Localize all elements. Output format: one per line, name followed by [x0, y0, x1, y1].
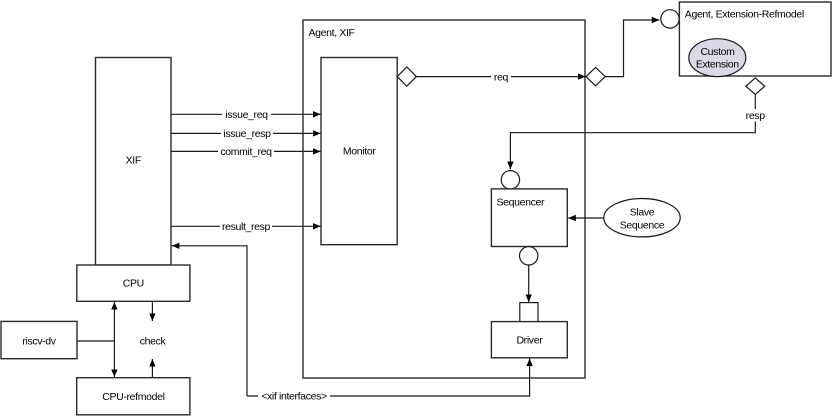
- svg-text:CPU: CPU: [123, 278, 144, 290]
- port diamond D1 (Monitor analysis port): [397, 67, 416, 86]
- wire issue_req (XIF to Monitor): [171, 113, 321, 115]
- block Agent, XIF (container): [303, 20, 585, 378]
- port square (Driver seq_item port): [520, 303, 538, 322]
- svg-text:riscv-dv: riscv-dv: [22, 336, 56, 348]
- svg-text:Extension: Extension: [696, 59, 739, 71]
- label req: [491, 71, 511, 84]
- label commit_req: [218, 145, 274, 158]
- svg-text:Sequence: Sequence: [620, 219, 665, 231]
- svg-text:Monitor: Monitor: [343, 146, 376, 158]
- wire riscv-dv to CPU/refmodel link: [78, 340, 115, 342]
- wire Slave Sequence to Sequencer: [568, 217, 604, 219]
- block Agent, Extension-Refmodel: [679, 2, 831, 76]
- svg-text:check: check: [140, 336, 167, 348]
- svg-text:Sequencer: Sequencer: [497, 197, 545, 209]
- svg-text:XIF: XIF: [126, 155, 141, 167]
- svg-text:issue_resp: issue_resp: [223, 128, 271, 140]
- label resp: [744, 109, 768, 122]
- svg-text:req: req: [494, 71, 509, 83]
- label issue_resp: [221, 127, 273, 140]
- wire check up arrow (from CPU-refmodel): [151, 359, 153, 377]
- port diamond D2 (Agent XIF edge): [586, 67, 605, 85]
- svg-text:Slave: Slave: [630, 206, 655, 218]
- block Custom Extension (ellipse): [689, 39, 746, 77]
- wire Sequencer circle to Driver port square: [528, 265, 530, 302]
- svg-text:Driver: Driver: [516, 335, 543, 347]
- block Monitor: [321, 58, 397, 245]
- block Sequencer: [491, 189, 567, 247]
- label issue_req: [222, 108, 271, 121]
- svg-text:Agent, XIF: Agent, XIF: [309, 27, 355, 39]
- svg-text:Agent, Extension-Refmodel: Agent, Extension-Refmodel: [685, 8, 804, 20]
- block riscv-dv: [1, 321, 77, 358]
- wire issue_resp (XIF to Monitor): [171, 132, 321, 134]
- wire check down arrow (from CPU): [151, 302, 153, 321]
- block XIF: [96, 58, 172, 266]
- wire req continuation (D2 to Agent-Ext circle): [605, 20, 659, 77]
- svg-text:result_resp: result_resp: [222, 221, 271, 233]
- wire req (Monitor diamond to Agent edge diamond): [416, 76, 585, 78]
- port circle (Sequencer top): [501, 171, 519, 189]
- svg-text:resp: resp: [746, 110, 766, 122]
- svg-text:<xif interfaces>: <xif interfaces>: [261, 391, 327, 403]
- block CPU-refmodel: [77, 378, 190, 415]
- wire xif interfaces (to XIF and to Driver): [172, 246, 247, 396]
- wire resp (D3 to Sequencer circle): [510, 95, 755, 170]
- block Driver: [491, 322, 567, 358]
- label xif interfaces: [258, 390, 330, 403]
- port circle (Agent-Ext export): [661, 10, 679, 28]
- svg-text:issue_req: issue_req: [225, 109, 268, 121]
- label result_resp: [220, 220, 272, 233]
- svg-text:CPU-refmodel: CPU-refmodel: [102, 391, 164, 403]
- block Slave Sequence (ellipse): [604, 199, 680, 237]
- wire result_resp (XIF to Monitor): [171, 225, 321, 227]
- wire CPU to CPU-refmodel (double arrow): [113, 302, 115, 340]
- port circle (Sequencer bottom / seq_item export): [520, 247, 538, 265]
- block CPU: [77, 265, 190, 301]
- svg-text:commit_req: commit_req: [220, 146, 272, 158]
- port diamond D3 (resp, below Agent-Ext): [746, 78, 765, 95]
- svg-text:Custom: Custom: [700, 46, 735, 58]
- wire commit_req (XIF to Monitor): [171, 150, 321, 152]
